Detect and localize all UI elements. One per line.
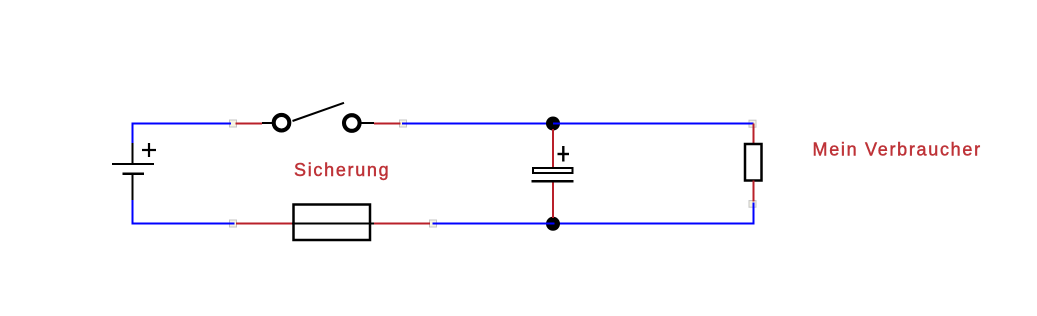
label Mein Verbraucher (load) <box>813 140 982 160</box>
wire switch S1 right black lead <box>361 122 374 124</box>
wire right blue segment resistor to bottom rail <box>740 203 754 224</box>
battery B1 top black lead <box>132 143 134 164</box>
wire top blue segment from pin to node A <box>402 123 553 125</box>
resistor R1 bottom red lead <box>753 181 755 202</box>
wire bottom blue segment pin to node B <box>433 223 555 225</box>
wire bottom-left blue segment (battery - to fuse pin) <box>133 200 235 224</box>
wire bottom blue segment node B to resistor branch <box>553 223 754 225</box>
resistor R1 top red lead <box>753 124 755 145</box>
pin marker top-middle (red/blue joint) <box>400 120 407 127</box>
capacitor C1 plus label <box>558 146 570 162</box>
wire top blue segment from node A to resistor pin <box>553 123 754 125</box>
battery B1 bottom black lead <box>132 174 134 200</box>
svg-text:Sicherung: Sicherung <box>294 160 390 180</box>
node B junction dot (bottom) <box>546 217 560 231</box>
capacitor C1 negative plate (solid bar) <box>532 180 574 183</box>
capacitor C1 positive plate (hollow box) <box>533 168 573 173</box>
battery B1 short plate (negative) <box>122 173 144 175</box>
svg-text:Mein Verbraucher: Mein Verbraucher <box>813 140 982 160</box>
pin marker bottom-left (blue/red joint) <box>230 220 237 227</box>
wire bottom red segment pin to fuse <box>236 223 293 225</box>
pin marker top-left (blue/red joint) <box>230 120 237 127</box>
wire bottom red segment fuse to pin <box>374 223 430 225</box>
wire top red segment from switch to pin <box>374 123 401 125</box>
capacitor C1 top red lead <box>552 129 554 168</box>
wire top-left blue segment (battery + to switch) <box>133 124 232 144</box>
pin marker bottom-middle (red/blue joint) <box>430 220 437 227</box>
battery B1 long plate (positive) <box>112 163 154 165</box>
pin marker resistor bottom <box>749 201 756 208</box>
fuse F1 body rectangle <box>294 205 371 241</box>
node A junction dot (top) <box>546 117 560 131</box>
wire top red segment to switch left pin <box>236 123 263 125</box>
fuse F1 internal black wire <box>292 223 374 225</box>
switch S1 left contact circle <box>274 115 290 131</box>
switch S1 right contact circle <box>344 115 360 131</box>
pin marker resistor top <box>749 120 756 127</box>
switch S1 lever arm <box>293 103 345 121</box>
wire switch S1 left black lead <box>262 122 273 124</box>
label Sicherung (fuse) <box>294 160 390 180</box>
resistor R1 body rectangle <box>745 144 762 181</box>
battery B1 plus label <box>142 143 156 157</box>
capacitor C1 bottom red lead <box>552 183 554 218</box>
